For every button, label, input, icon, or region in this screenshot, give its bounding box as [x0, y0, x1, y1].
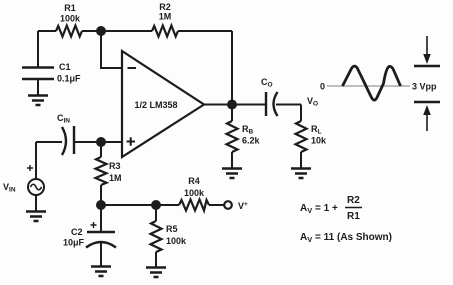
svg-text:AV = 11 (As Shown): AV = 11 (As Shown)	[300, 232, 392, 244]
wire RL to ground	[300, 152, 302, 168]
terminal V+	[224, 201, 248, 211]
wire CO to VO corner	[276, 104, 301, 106]
node C bias junction	[96, 200, 106, 210]
svg-text:100k: 100k	[166, 236, 187, 246]
node B plus-input junction	[96, 137, 106, 147]
resistor R5	[151, 221, 188, 252]
wire top rail left segment	[38, 30, 56, 32]
capacitor C2	[63, 222, 116, 248]
wire R5 to ground	[155, 252, 157, 267]
ground C1	[28, 96, 48, 106]
capacitor CIN	[57, 113, 74, 155]
resistor R4	[179, 176, 209, 211]
wire RB to ground	[231, 152, 233, 168]
resistor R2	[152, 2, 178, 37]
node E output junction	[227, 100, 237, 110]
ground RB	[222, 169, 242, 179]
svg-text:6.2k: 6.2k	[242, 136, 261, 146]
wire node D down to R5	[155, 205, 157, 221]
svg-text:CO: CO	[261, 77, 273, 89]
wire VIN to ground	[35, 195, 37, 211]
formula Av = 11 (As Shown)	[300, 232, 392, 244]
wire R3 to bias node	[100, 185, 102, 205]
svg-text:100k: 100k	[60, 14, 81, 24]
svg-text:RB: RB	[242, 124, 254, 136]
measurement arrow bottom	[414, 102, 440, 131]
resistor R3	[96, 157, 122, 185]
svg-text:VIN: VIN	[3, 182, 16, 194]
svg-text:1M: 1M	[109, 173, 122, 183]
wire CIN to non-inverting input	[74, 141, 122, 143]
svg-text:AV = 1 +: AV = 1 +	[300, 203, 338, 215]
svg-text:RL: RL	[311, 124, 322, 136]
wire C1 to ground	[37, 79, 39, 95]
svg-text:R2: R2	[159, 2, 171, 12]
ground RL	[291, 169, 311, 179]
svg-text:V+: V+	[238, 201, 248, 211]
wire op-amp output	[204, 104, 265, 106]
measurement arrow top	[414, 36, 440, 66]
wire VIN corner	[35, 142, 37, 179]
label VO	[307, 96, 318, 108]
wire R4 to V+ terminal	[209, 204, 224, 206]
capacitor CO	[261, 77, 278, 116]
svg-text:10k: 10k	[311, 136, 327, 146]
svg-text:R1: R1	[347, 211, 360, 222]
wire node B down to R3	[100, 142, 102, 157]
capacitor C1	[22, 62, 81, 84]
svg-text:R2: R2	[347, 195, 360, 206]
waveform baseline and 0 label	[320, 82, 410, 92]
svg-text:0: 0	[320, 82, 325, 92]
wire feedback vertical	[231, 31, 233, 104]
ground C2	[91, 267, 111, 277]
wire C2 to ground	[100, 242, 102, 266]
resistor RL	[296, 121, 328, 152]
node D R5 junction	[151, 200, 161, 210]
svg-text:10μF: 10μF	[63, 238, 85, 248]
wire node C to C2	[100, 205, 102, 231]
svg-text:R1: R1	[64, 3, 76, 13]
svg-text:0.1μF: 0.1μF	[57, 74, 81, 84]
svg-text:1/2 LM358: 1/2 LM358	[134, 100, 177, 110]
wire bias rail node C to R4	[101, 204, 179, 206]
resistor RB	[227, 121, 261, 152]
node A feedback junction	[96, 26, 106, 36]
formula Av = 1 + R2/R1	[300, 195, 362, 222]
waveform sine 3Vpp	[343, 66, 401, 100]
wire between R1 and node A	[82, 30, 152, 32]
svg-text:R3: R3	[109, 161, 121, 171]
svg-text:R5: R5	[166, 224, 178, 234]
svg-text:3 Vpp: 3 Vpp	[412, 82, 437, 92]
svg-text:CIN: CIN	[57, 113, 70, 125]
svg-text:C2: C2	[71, 227, 83, 237]
wire left branch down to C1	[37, 31, 39, 67]
ground R5	[146, 268, 166, 278]
wire inverting input	[101, 31, 122, 68]
wire from R2 to feedback corner	[178, 30, 232, 32]
svg-text:C1: C1	[59, 62, 71, 72]
wire node E down to RB	[231, 105, 233, 122]
svg-text:1M: 1M	[159, 12, 172, 22]
svg-text:100k: 100k	[184, 188, 205, 198]
label 3 Vpp	[412, 82, 437, 92]
op-amp U1 1/2 LM358	[122, 51, 204, 157]
svg-text:R4: R4	[188, 176, 200, 186]
ground VIN	[26, 212, 46, 222]
svg-text:VO: VO	[307, 96, 318, 108]
source VIN	[3, 165, 44, 195]
wire input rail from VIN corner to CIN	[36, 141, 62, 143]
resistor R1	[56, 3, 82, 37]
wire VO corner down to RL	[300, 105, 302, 122]
